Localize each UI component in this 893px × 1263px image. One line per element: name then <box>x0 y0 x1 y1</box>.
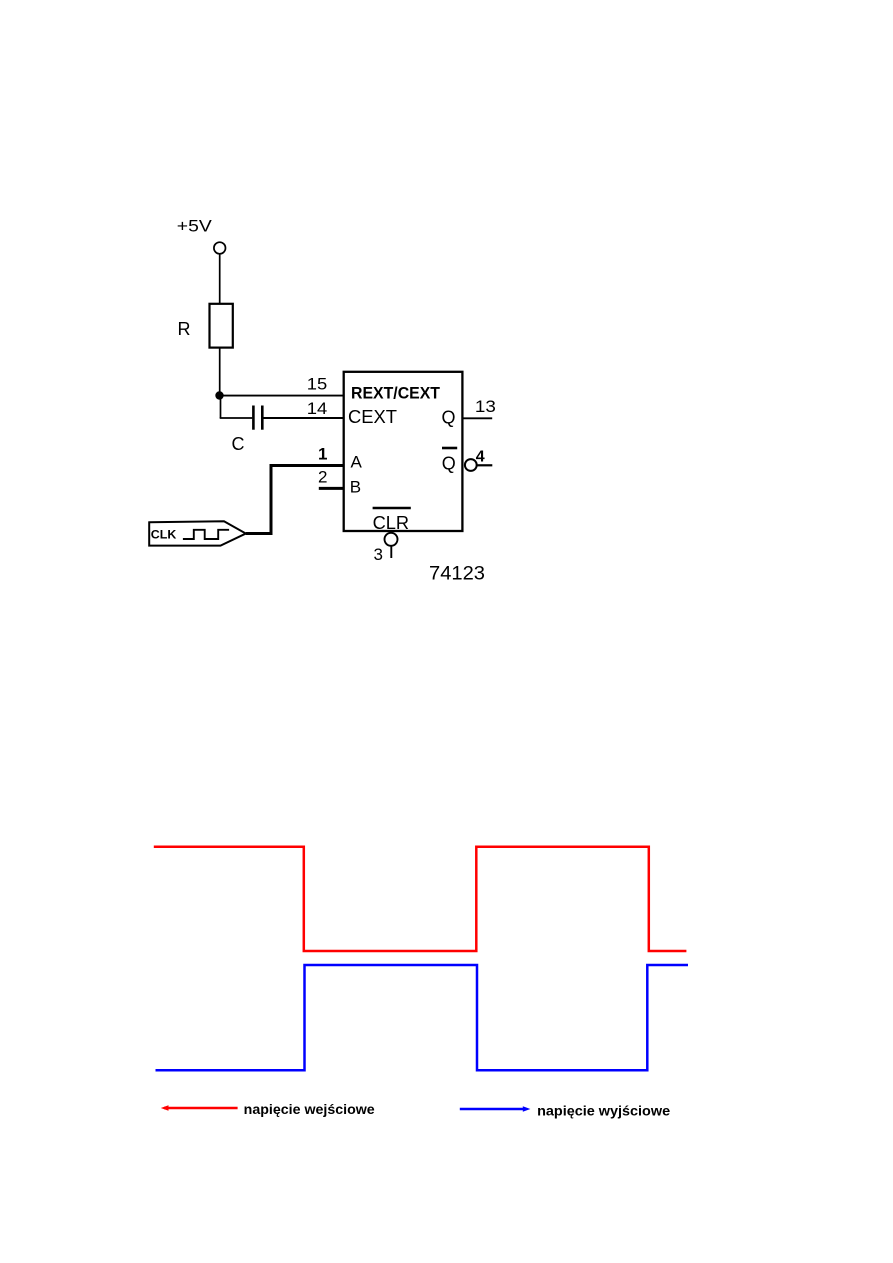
svg-text:napięcie wyjściowe: napięcie wyjściowe <box>537 1102 670 1118</box>
pin 2 stub wire (B input) <box>319 487 344 490</box>
svg-text:74123: 74123 <box>429 563 485 584</box>
wire to capacitor left plate <box>220 417 253 419</box>
legend blue line with right arrowhead <box>460 1106 531 1112</box>
svg-text:REXT/CEXT: REXT/CEXT <box>351 384 441 403</box>
Q-bar inverter bubble <box>465 459 477 471</box>
wire junction to pin 15 <box>220 395 344 397</box>
junction node dot <box>215 391 223 399</box>
svg-text:14: 14 <box>307 399 328 418</box>
svg-text:Q: Q <box>442 453 456 473</box>
svg-text:napięcie wejściowe: napięcie wejściowe <box>244 1101 375 1117</box>
svg-text:A: A <box>351 452 363 471</box>
wire riser up to pin 1 <box>270 464 273 535</box>
IC body 74123 <box>344 372 463 531</box>
CLK waveform glyph <box>183 530 229 539</box>
IC label CLR overline <box>373 507 411 509</box>
wire junction down to capacitor branch <box>220 396 222 419</box>
wire resistor to junction <box>219 348 221 396</box>
wire CLK tip to riser <box>246 532 273 535</box>
svg-text:CLK: CLK <box>151 530 177 542</box>
pin 4 wire <box>477 464 493 466</box>
CLK source flag outline <box>149 521 246 545</box>
wire supply to resistor <box>219 254 221 304</box>
svg-text:4: 4 <box>476 449 485 466</box>
IC label Q-bar overline <box>442 447 457 450</box>
svg-text:+5V: +5V <box>177 217 213 236</box>
svg-text:Q: Q <box>442 408 456 428</box>
svg-text:3: 3 <box>374 545 383 564</box>
svg-text:13: 13 <box>475 397 496 416</box>
svg-text:C: C <box>232 434 245 454</box>
svg-text:1: 1 <box>318 445 327 464</box>
svg-text:CEXT: CEXT <box>348 407 397 427</box>
svg-text:B: B <box>350 477 361 496</box>
legend red line with left arrowhead <box>161 1105 238 1111</box>
output voltage waveform (blue) <box>156 965 689 1070</box>
svg-text:2: 2 <box>318 467 327 486</box>
input voltage waveform (red) <box>154 847 687 951</box>
supply terminal circle <box>214 242 226 254</box>
resistor R <box>210 304 233 348</box>
pin 1 wire (A input) <box>270 464 344 467</box>
pin 13 wire <box>462 417 492 419</box>
capacitor C right plate <box>261 406 264 430</box>
svg-text:CLR: CLR <box>373 513 410 533</box>
wire capacitor to pin 14 <box>264 417 344 419</box>
svg-text:15: 15 <box>307 375 328 394</box>
pin 3 stub wire <box>390 546 392 558</box>
pin 3 bubble <box>385 533 398 546</box>
capacitor C left plate <box>252 406 255 430</box>
svg-text:R: R <box>178 319 191 339</box>
